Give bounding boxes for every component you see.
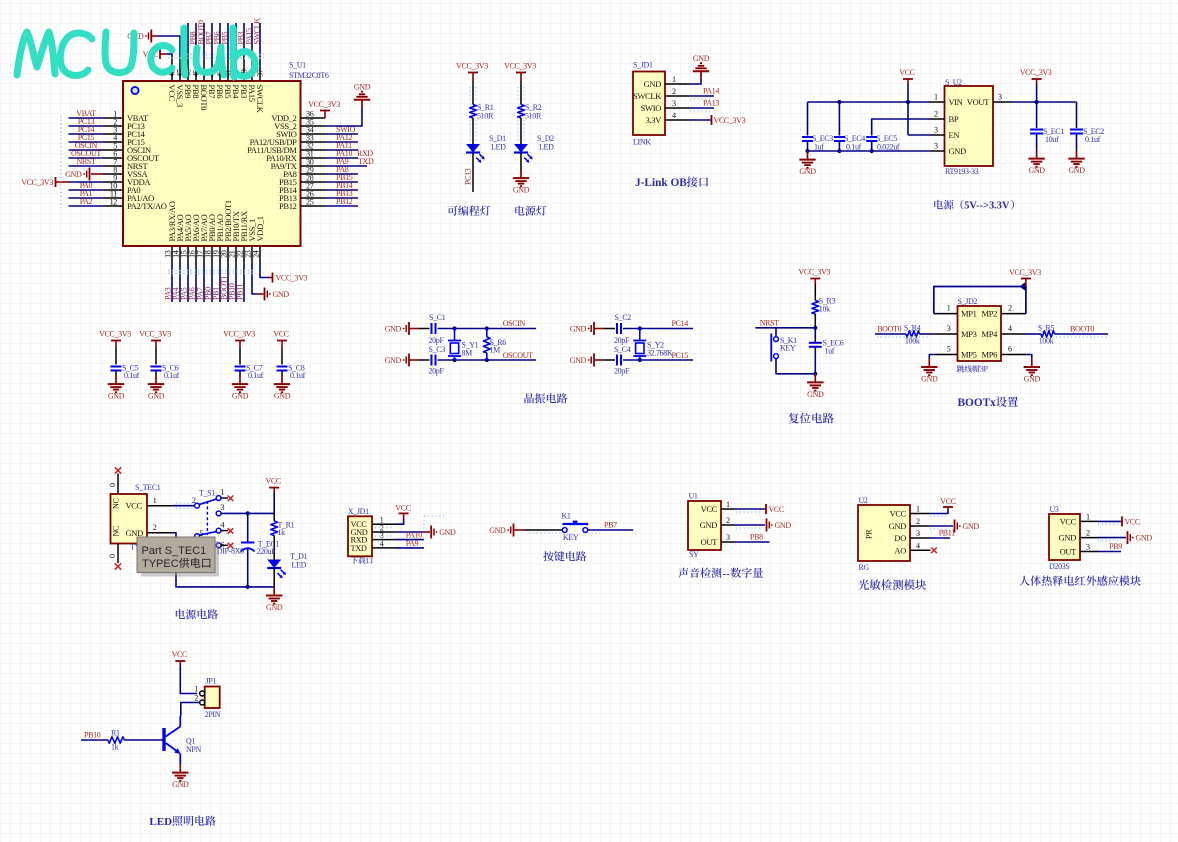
decoupling cap S_C6 0.1uf with VCC_3V3 and GND bbox=[151, 340, 161, 342]
bottom bus wire bbox=[173, 533, 275, 587]
svg-text:PB11: PB11 bbox=[939, 529, 955, 538]
svg-text:GND: GND bbox=[963, 522, 980, 531]
svg-text:1: 1 bbox=[1086, 512, 1090, 521]
svg-text:PB9: PB9 bbox=[1109, 542, 1122, 551]
svg-text:20pF: 20pF bbox=[614, 367, 630, 376]
svg-text:GND: GND bbox=[570, 325, 587, 334]
svg-text:AO: AO bbox=[894, 545, 906, 555]
svg-text:VCC_3V3: VCC_3V3 bbox=[223, 330, 255, 339]
svg-text:EN: EN bbox=[949, 130, 960, 140]
svg-text:1uf: 1uf bbox=[825, 347, 835, 356]
U1 pin24 VDD_1 to VCC_3V3 bbox=[260, 264, 269, 278]
svg-text:2: 2 bbox=[194, 694, 198, 703]
svg-text:3: 3 bbox=[221, 503, 225, 512]
svg-text:VCC: VCC bbox=[265, 477, 280, 486]
svg-text:3: 3 bbox=[672, 99, 676, 108]
svg-text:GND: GND bbox=[700, 520, 718, 530]
svg-text:GND: GND bbox=[775, 521, 792, 530]
wire GND bus bbox=[808, 150, 931, 152]
wire to NRST node bbox=[814, 314, 816, 328]
T_S1 arm A bbox=[199, 499, 216, 505]
svg-text:GND: GND bbox=[949, 146, 967, 156]
svg-text:VCC_3V3: VCC_3V3 bbox=[456, 62, 488, 71]
U1 right pin 27 PB14 bbox=[301, 189, 326, 191]
ground bbox=[273, 587, 275, 596]
wire pin3 to junction and VCC branch bbox=[248, 512, 275, 514]
svg-text:0.1uf: 0.1uf bbox=[1085, 135, 1101, 144]
VCC_3V3 power for S_D1 bbox=[468, 72, 478, 74]
gnd for key bbox=[513, 524, 515, 537]
S_TEC1 pin 1 stub bbox=[147, 505, 173, 507]
svg-text:8M: 8M bbox=[462, 349, 473, 358]
wire PB7 bbox=[588, 529, 634, 531]
U1 top pin 44 BOOT0 bbox=[203, 57, 205, 82]
module U3 body bbox=[1049, 514, 1080, 560]
svg-text:X_JD1: X_JD1 bbox=[348, 507, 369, 516]
svg-text:3: 3 bbox=[916, 529, 920, 538]
svg-text:24: 24 bbox=[252, 250, 261, 258]
svg-text:NPN: NPN bbox=[186, 745, 202, 754]
svg-text:12: 12 bbox=[110, 198, 118, 207]
U1 bottom pin 18 PB0/AO bbox=[211, 246, 213, 264]
U1 left pin 12 PA2/TX/AO bbox=[103, 205, 123, 207]
wire VCC to EN bbox=[907, 84, 909, 135]
svg-text:S_C3: S_C3 bbox=[429, 345, 446, 354]
X_JD1 pin4 PA9 bbox=[395, 547, 424, 549]
svg-text:TYPEC: TYPEC bbox=[142, 558, 179, 570]
svg-text:BOOT0: BOOT0 bbox=[877, 324, 901, 333]
logo MCUclub bbox=[17, 28, 255, 77]
S_TEC1 pin 2 stub bbox=[147, 532, 173, 534]
X_JD1 pin 2 GND bbox=[372, 531, 395, 533]
LED S_D1 bbox=[466, 144, 480, 153]
U3 pin2 to GND bbox=[1098, 537, 1126, 539]
U1 left pin 5 OSCIN bbox=[103, 149, 123, 151]
svg-text:0: 0 bbox=[108, 483, 117, 487]
capacitor S_C4 20pF bbox=[616, 355, 618, 366]
LED S_D2 bbox=[514, 144, 528, 153]
svg-text:JP1: JP1 bbox=[206, 677, 217, 686]
title 光敏检测模块 bbox=[858, 579, 926, 590]
svg-text:MP5: MP5 bbox=[961, 350, 977, 360]
S_JD1 pin 1 GND bbox=[665, 83, 690, 85]
U1 bottom pin 14 PA4/AO bbox=[179, 246, 181, 264]
svg-text:GND: GND bbox=[385, 356, 402, 365]
svg-text:S_R5: S_R5 bbox=[1038, 324, 1055, 333]
svg-text:NC: NC bbox=[112, 498, 121, 509]
svg-text:VCC: VCC bbox=[395, 504, 410, 513]
wire to PC13 bbox=[472, 153, 474, 192]
U1 left pin 11 PA1/AO bbox=[103, 197, 123, 199]
title 声音检测--数字量 bbox=[678, 568, 721, 578]
S_JD2 pins row 1 bbox=[934, 313, 958, 315]
svg-text:GND: GND bbox=[439, 528, 456, 537]
title 晶振电路 bbox=[524, 393, 567, 403]
capacitor S_EC4 0.1uf bbox=[838, 102, 840, 136]
svg-text:--: -- bbox=[723, 568, 731, 580]
U3 pin1 to VCC bbox=[1098, 520, 1120, 522]
svg-text:S_U1: S_U1 bbox=[289, 61, 306, 70]
svg-text:VDD_1: VDD_1 bbox=[255, 216, 265, 241]
S_U2 pin EN bbox=[930, 134, 945, 136]
regulator S_U2 body RT9193-33 bbox=[945, 86, 994, 166]
svg-text:20pF: 20pF bbox=[429, 367, 445, 376]
svg-text:GND: GND bbox=[570, 356, 587, 365]
U1 bottom pin 17 PA7/AO bbox=[203, 246, 205, 264]
U2 module pin 3 DO bbox=[910, 537, 930, 539]
U3 pin3 PB9 bbox=[1098, 551, 1121, 553]
U1 right pin 33 PA12/USB/DP bbox=[301, 141, 326, 143]
svg-text:1: 1 bbox=[153, 496, 157, 505]
wire key to gnd node bbox=[776, 359, 815, 374]
svg-text:PB12: PB12 bbox=[279, 201, 297, 211]
svg-text:VCC_3V3: VCC_3V3 bbox=[21, 178, 53, 187]
svg-text:GND: GND bbox=[385, 325, 402, 334]
svg-text:VCC: VCC bbox=[769, 505, 784, 514]
svg-text:1: 1 bbox=[194, 685, 198, 694]
svg-text:1: 1 bbox=[672, 75, 676, 84]
capacitor S_EC3 1uf bbox=[807, 102, 809, 136]
U1 right pin 32 PA11/USB/DM bbox=[301, 149, 326, 151]
selection dots under U1 bbox=[168, 270, 254, 272]
wire PC15 bbox=[623, 359, 693, 361]
U1 pin36 VCC_3V3 power bbox=[320, 110, 330, 112]
svg-text:PB12: PB12 bbox=[336, 197, 353, 206]
svg-text:VCC_3V3: VCC_3V3 bbox=[714, 116, 746, 125]
U1 left pin 2 PC13 bbox=[103, 125, 123, 127]
svg-text:MP2: MP2 bbox=[982, 309, 998, 319]
capacitor T_EC1 220uf electrolytic bbox=[247, 513, 249, 542]
U1 top pin 45 PB8 bbox=[195, 57, 197, 82]
wire bbox=[472, 118, 474, 144]
svg-text:220uF: 220uF bbox=[257, 547, 277, 556]
svg-text:VCC_3V3: VCC_3V3 bbox=[308, 100, 340, 109]
svg-text:DIP-8X8: DIP-8X8 bbox=[217, 547, 244, 556]
svg-text:GND: GND bbox=[1024, 375, 1041, 384]
T_S1 pin 6 with nc bbox=[216, 543, 221, 548]
decoupling cap S_C8 0.1uf with VCC and GND bbox=[277, 340, 287, 342]
svg-text:VCC: VCC bbox=[940, 497, 955, 506]
U1 left pin 4 PC15 bbox=[103, 141, 123, 143]
module U2 body bbox=[858, 505, 910, 561]
pin5 to ground bbox=[929, 355, 934, 359]
U1 pin47 VSS_3 to GND sideways bbox=[157, 36, 180, 57]
wire bbox=[520, 81, 522, 105]
svg-text:GND: GND bbox=[274, 392, 291, 401]
U3 module pin 3 OUT bbox=[1080, 551, 1098, 553]
U1 bottom pin 23 VSS_1 bbox=[251, 246, 253, 264]
S_JD1 pin 2 SWCLK bbox=[665, 95, 690, 97]
tooltip popup Part S_TEC1 TYPEC供电口 bbox=[141, 541, 219, 577]
svg-text:1: 1 bbox=[916, 505, 920, 514]
svg-text:LINK: LINK bbox=[633, 138, 651, 147]
U1 pin8 VSSA ground bbox=[91, 173, 103, 175]
S_U2 pin BP bbox=[930, 118, 945, 120]
X_JD1 pin3 PA10 bbox=[395, 539, 424, 541]
U1 bottom pin 15 PA5/AO bbox=[187, 246, 189, 264]
svg-text:RG: RG bbox=[859, 563, 870, 572]
svg-text:VIN: VIN bbox=[949, 97, 963, 107]
svg-text:PA14: PA14 bbox=[703, 87, 719, 96]
svg-text:PB10: PB10 bbox=[84, 731, 101, 740]
S_TEC1 bottom NC pin 0 bbox=[117, 544, 119, 564]
capacitor S_EC2 0.1uf bbox=[1076, 102, 1078, 128]
title 电源电路 bbox=[176, 609, 218, 619]
VCC power bbox=[269, 487, 279, 489]
svg-text:VOUT: VOUT bbox=[967, 97, 990, 107]
S_JD1 pin3 wire PA13 bbox=[690, 107, 714, 109]
svg-text:OUT: OUT bbox=[1060, 547, 1078, 557]
selection dot marks bbox=[176, 508, 194, 510]
S_JD2 pins row 2 bbox=[934, 333, 958, 335]
capacitor S_EC1 10uf bbox=[1036, 102, 1038, 128]
U2 module pin 2 GND bbox=[910, 525, 930, 527]
wire VOUT net bbox=[1012, 101, 1077, 103]
svg-text:GND: GND bbox=[65, 170, 82, 179]
decoupling cap S_C7 0.1uf with VCC_3V3 and GND bbox=[235, 340, 245, 342]
svg-text:100k: 100k bbox=[905, 337, 920, 346]
svg-text:PC13: PC13 bbox=[464, 168, 473, 185]
svg-text:PC14: PC14 bbox=[672, 319, 689, 328]
VCC power input bbox=[903, 78, 913, 80]
key S_K1 bbox=[775, 328, 777, 337]
svg-text:R1: R1 bbox=[111, 729, 120, 738]
svg-text:20pF: 20pF bbox=[614, 336, 630, 345]
X_JD1 pin1 to VCC bbox=[395, 519, 404, 525]
VCC_3V3 power bbox=[1021, 278, 1031, 280]
U1 right pin 36 VDD_2 bbox=[301, 117, 326, 119]
svg-text:1: 1 bbox=[947, 304, 951, 313]
U1 left pin 1 VBAT bbox=[103, 117, 123, 119]
ground bbox=[814, 374, 816, 383]
wire JP1 pin2 to Q1 collector bbox=[181, 703, 200, 716]
svg-text:U3: U3 bbox=[1050, 505, 1059, 514]
resistor T_R1 1k bbox=[273, 513, 275, 521]
svg-text:GND: GND bbox=[799, 167, 816, 176]
svg-text:OUT: OUT bbox=[701, 537, 719, 547]
svg-text:4: 4 bbox=[221, 521, 225, 530]
svg-text:S_U2: S_U2 bbox=[945, 78, 962, 87]
svg-text:BOOTx: BOOTx bbox=[958, 397, 997, 409]
svg-text:VCC_3V3: VCC_3V3 bbox=[139, 330, 171, 339]
T_S1 arm B bbox=[199, 532, 216, 535]
svg-text:K1: K1 bbox=[562, 512, 571, 521]
S_JD1 pin4 wire VCC_3V3 bbox=[690, 119, 710, 121]
title 人体热释电红外感应模块 bbox=[1019, 575, 1140, 585]
jumper S_JD2 body bbox=[958, 306, 1002, 361]
svg-text:PR: PR bbox=[865, 529, 874, 539]
ground bbox=[807, 151, 809, 160]
svg-text:4: 4 bbox=[672, 111, 676, 120]
svg-text:10k: 10k bbox=[819, 305, 830, 314]
svg-text:VCC_3V3: VCC_3V3 bbox=[1020, 68, 1052, 77]
U1 pin9 VDDA VCC_3V3 bbox=[69, 181, 104, 183]
svg-text:S_R4: S_R4 bbox=[904, 324, 921, 333]
svg-text:SWCLK: SWCLK bbox=[253, 18, 262, 45]
wire OSCIN bbox=[438, 328, 537, 330]
svg-text:2: 2 bbox=[192, 496, 196, 505]
svg-text:NRST: NRST bbox=[760, 318, 780, 327]
S_U2 pin VIN bbox=[930, 101, 945, 103]
svg-text:PB11: PB11 bbox=[236, 284, 245, 300]
svg-text:OSCIN: OSCIN bbox=[503, 319, 526, 328]
ground bbox=[1036, 150, 1038, 159]
svg-text:510R: 510R bbox=[525, 112, 542, 121]
svg-text:2: 2 bbox=[153, 523, 157, 532]
connector S_TEC1 body bbox=[111, 494, 148, 544]
title 电源灯 bbox=[515, 206, 546, 216]
svg-text:3.3V: 3.3V bbox=[646, 115, 663, 125]
JP1 pin2 bbox=[200, 700, 205, 705]
T_S1 dashed link bbox=[206, 501, 208, 535]
svg-text:KEY: KEY bbox=[563, 533, 579, 542]
svg-text:GND: GND bbox=[693, 54, 710, 63]
U1 pin1 to VCC bbox=[734, 508, 764, 510]
capacitor S_C2 20pF bbox=[616, 323, 618, 334]
svg-text:20pF: 20pF bbox=[429, 336, 445, 345]
wire bbox=[472, 81, 474, 105]
svg-text:GND: GND bbox=[1059, 533, 1077, 543]
svg-text:GND: GND bbox=[513, 186, 530, 195]
svg-text:GND: GND bbox=[644, 79, 662, 89]
connector X_JD1 body bbox=[348, 516, 372, 556]
wire OSCOUT bbox=[438, 359, 537, 361]
svg-text:KEY: KEY bbox=[780, 344, 796, 353]
svg-text:PB7: PB7 bbox=[604, 521, 617, 530]
U2 pin2 to GND bbox=[930, 525, 953, 527]
svg-text:PA13: PA13 bbox=[703, 99, 719, 108]
U1 bottom pin 19 PB1/AO bbox=[219, 246, 221, 264]
VCC_3V3 power for S_D2 bbox=[516, 72, 526, 74]
title 可编程灯 bbox=[447, 206, 490, 216]
svg-text:1: 1 bbox=[726, 500, 730, 509]
U1 left pin 10 PA0 bbox=[103, 189, 123, 191]
svg-text:VCC: VCC bbox=[126, 501, 143, 511]
svg-text:1k: 1k bbox=[111, 743, 119, 752]
svg-text:GND: GND bbox=[266, 603, 283, 612]
gnd for S_C3 bbox=[408, 354, 410, 367]
ground bbox=[520, 170, 522, 179]
X_JD1 pin 1 VCC bbox=[372, 523, 395, 525]
svg-text:MP1: MP1 bbox=[961, 309, 977, 319]
svg-text:PA9: PA9 bbox=[406, 539, 419, 548]
svg-text:VCC_3V3: VCC_3V3 bbox=[99, 330, 131, 339]
U1 right pin 31 PA10/RX bbox=[301, 157, 326, 159]
MCU U1 body STM32C8T6 bbox=[123, 81, 301, 246]
svg-text:3: 3 bbox=[934, 142, 938, 151]
svg-text:S_TEC1: S_TEC1 bbox=[135, 483, 161, 492]
svg-text:1: 1 bbox=[221, 488, 225, 497]
T_S1 pin 4 with nc bbox=[216, 528, 221, 533]
svg-text:VCC_3V3: VCC_3V3 bbox=[1009, 268, 1041, 277]
VCC power bbox=[175, 660, 185, 662]
connector S_JD1 body bbox=[633, 72, 665, 136]
svg-text:GND: GND bbox=[108, 392, 125, 401]
U1 right pin 30 PA9/TX bbox=[301, 165, 326, 167]
svg-text:VCC_3V3: VCC_3V3 bbox=[504, 62, 536, 71]
svg-text:DO: DO bbox=[894, 533, 906, 543]
T_S1 pole B common pin 5 bbox=[195, 534, 200, 539]
connector JP1 body bbox=[205, 687, 220, 709]
svg-text:TXD: TXD bbox=[358, 157, 374, 166]
U1 left pin 7 NRST bbox=[103, 165, 123, 167]
svg-text:2: 2 bbox=[672, 87, 676, 96]
resistor S_R2 510R bbox=[518, 105, 525, 119]
svg-text:1uf: 1uf bbox=[814, 143, 824, 152]
JP1 pin1 bbox=[200, 691, 205, 696]
svg-text:3: 3 bbox=[934, 126, 938, 135]
key K1 bbox=[562, 528, 567, 533]
svg-text:0.1uf: 0.1uf bbox=[164, 371, 180, 380]
svg-text:STM32C8T6: STM32C8T6 bbox=[289, 71, 329, 80]
resistor S_R1 510R bbox=[470, 105, 477, 119]
S_TEC1 top NC pin 0 bbox=[117, 474, 119, 495]
T_S1 pin 3 output bbox=[216, 511, 221, 516]
svg-text:0.1uf: 0.1uf bbox=[124, 371, 140, 380]
svg-text:100k: 100k bbox=[1039, 337, 1054, 346]
svg-text:PC15: PC15 bbox=[672, 351, 689, 360]
svg-text:BOOT0: BOOT0 bbox=[1070, 324, 1094, 333]
gnd for S_C4 bbox=[593, 354, 595, 367]
svg-text:U2: U2 bbox=[859, 496, 868, 505]
U1 top pin 47 VSS_3 bbox=[179, 57, 181, 82]
label 跳线帽3P bbox=[957, 365, 980, 372]
svg-text:10uf: 10uf bbox=[1045, 135, 1059, 144]
svg-text:4: 4 bbox=[1008, 324, 1012, 333]
title 复位电路 bbox=[789, 413, 834, 424]
svg-text:GND: GND bbox=[354, 83, 371, 92]
svg-text:1: 1 bbox=[934, 93, 938, 102]
wire bbox=[520, 118, 522, 144]
U1 top pin 38 PA15 bbox=[251, 57, 253, 82]
svg-text:S_C2: S_C2 bbox=[615, 313, 632, 322]
wire PC14 bbox=[623, 328, 693, 330]
U1 right pin 34 SWIO bbox=[301, 133, 326, 135]
U1 pin3 PB8 bbox=[734, 541, 770, 543]
U1 right pin 28 PB15 bbox=[301, 181, 326, 183]
svg-text:LED: LED bbox=[539, 143, 554, 152]
resistor R1 1k bbox=[108, 737, 124, 743]
U1 top pin 37 SWCLK bbox=[259, 57, 261, 82]
svg-text:J-Link OB: J-Link OB bbox=[635, 177, 687, 189]
transistor Q1 NPN bbox=[162, 728, 165, 751]
resistor S_R3 10k bbox=[812, 301, 819, 315]
svg-text:VCC: VCC bbox=[1060, 516, 1077, 526]
wire BP to EC5 bbox=[872, 119, 930, 136]
svg-text:VCC: VCC bbox=[899, 68, 914, 77]
module U1 body bbox=[688, 501, 721, 550]
svg-text:PA2/TX/AO: PA2/TX/AO bbox=[127, 201, 167, 211]
U1 right pin 26 PB13 bbox=[301, 197, 326, 199]
wire VIN bus bbox=[808, 101, 931, 103]
svg-text:GND: GND bbox=[126, 528, 144, 538]
gnd for S_C2 bbox=[593, 322, 595, 335]
U1 right pin 25 PB12 bbox=[301, 205, 326, 207]
S_U2 pin VOUT bbox=[993, 101, 1012, 103]
svg-text:0.022uf: 0.022uf bbox=[877, 143, 900, 152]
capacitor S_EC5 0.022uf bbox=[866, 136, 877, 138]
svg-text:0: 0 bbox=[108, 554, 117, 558]
svg-text:S_JD1: S_JD1 bbox=[633, 61, 653, 70]
U3 module pin 1 VCC bbox=[1080, 520, 1098, 522]
svg-text:2: 2 bbox=[934, 110, 938, 119]
wire to ground bbox=[520, 153, 522, 170]
U1 module pin 2 GND bbox=[721, 524, 734, 526]
U1 bottom pin 21 PB10/TX bbox=[235, 246, 237, 264]
U1 top pin 43 PB7 bbox=[211, 57, 213, 82]
svg-text:SWIO: SWIO bbox=[641, 103, 662, 113]
svg-text:VCC: VCC bbox=[890, 509, 907, 519]
